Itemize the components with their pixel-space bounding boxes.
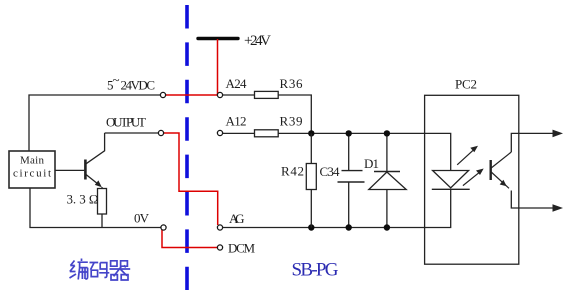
terminal 5~24VDC (160, 92, 165, 97)
svg-text:0V: 0V (134, 211, 150, 226)
wire OUTPUT (105, 132, 159, 134)
svg-text:D1: D1 (364, 156, 379, 171)
svg-text:circuit: circuit (13, 168, 51, 180)
svg-text:DCM: DCM (228, 241, 255, 256)
svg-text:24VDC: 24VDC (121, 78, 156, 93)
junction C34 top (346, 130, 352, 136)
capacitor C34 (348, 133, 350, 170)
Main circuit box U1 (9, 151, 55, 188)
collector output wire with arrow (511, 133, 557, 152)
wire 0V rail (30, 188, 161, 228)
encoder label char BIAN (70, 259, 88, 280)
junction D1 top (384, 130, 390, 136)
svg-text:PC2: PC2 (455, 77, 477, 92)
terminal 0V (161, 225, 166, 230)
wire A12 to R39 (223, 132, 255, 134)
wire R36 to node (278, 95, 311, 133)
wire bottom rail AG to LED cathode (223, 189, 451, 227)
svg-text:~: ~ (113, 72, 120, 87)
svg-text:OUTPUT: OUTPUT (106, 115, 146, 130)
LED arrows (457, 149, 475, 165)
wire node to R42 top (310, 133, 312, 163)
resistor R42 (306, 164, 316, 190)
terminal DCM (217, 245, 222, 250)
junction R42 top (308, 130, 314, 136)
wire OUTPUT terminal to AG terminal (red) (164, 133, 218, 225)
svg-text:+24V: +24V (244, 33, 271, 49)
encoder label char MA (90, 263, 110, 278)
resistor R36 (255, 91, 279, 98)
junction C34 bottom (346, 224, 352, 230)
wire base of transistor (55, 169, 84, 171)
encoder label char QI (110, 261, 131, 280)
terminal OUTPUT (158, 130, 163, 135)
wire +24V to A24 node (red) (217, 39, 219, 95)
resistor R39 (255, 130, 279, 137)
svg-text:3. 3 Ω: 3. 3 Ω (67, 192, 99, 207)
emitter output wire with arrow (511, 191, 557, 209)
optocoupler PC2 box (425, 95, 519, 264)
+24V power rail bar (198, 37, 238, 40)
wire 5~24VDC horizontal (29, 95, 161, 151)
resistor 3.3 ohm (101, 187, 103, 189)
svg-text:R39: R39 (280, 114, 303, 129)
svg-text:AG: AG (229, 211, 245, 226)
terminal A24 (217, 92, 222, 97)
svg-text:R36: R36 (280, 76, 304, 91)
junction D1 bottom (384, 224, 390, 230)
wire 5~24VDC terminal to A24 terminal (red) (165, 94, 218, 96)
terminal A12 (217, 130, 222, 135)
isolation boundary dashed line (blue) (185, 5, 189, 290)
wire top rail to LED anode (278, 133, 451, 170)
wire R42 bottom to node (310, 190, 312, 228)
svg-text:Main: Main (20, 155, 45, 167)
junction R42 bottom (308, 224, 314, 230)
transistor Q1 (84, 160, 87, 180)
svg-text:SB-PG: SB-PG (292, 260, 339, 281)
diode D1 (386, 133, 388, 171)
svg-text:A12: A12 (226, 114, 247, 129)
svg-text:C34: C34 (320, 164, 341, 179)
svg-text:R42: R42 (281, 164, 304, 179)
phototransistor inside PC2 (490, 160, 492, 180)
svg-text:A24: A24 (226, 76, 248, 91)
wire A24 to R36 (223, 94, 255, 96)
wire 0V terminal to DCM terminal (red) (162, 229, 217, 248)
LED inside PC2 (433, 171, 469, 188)
terminal AG (217, 225, 222, 230)
